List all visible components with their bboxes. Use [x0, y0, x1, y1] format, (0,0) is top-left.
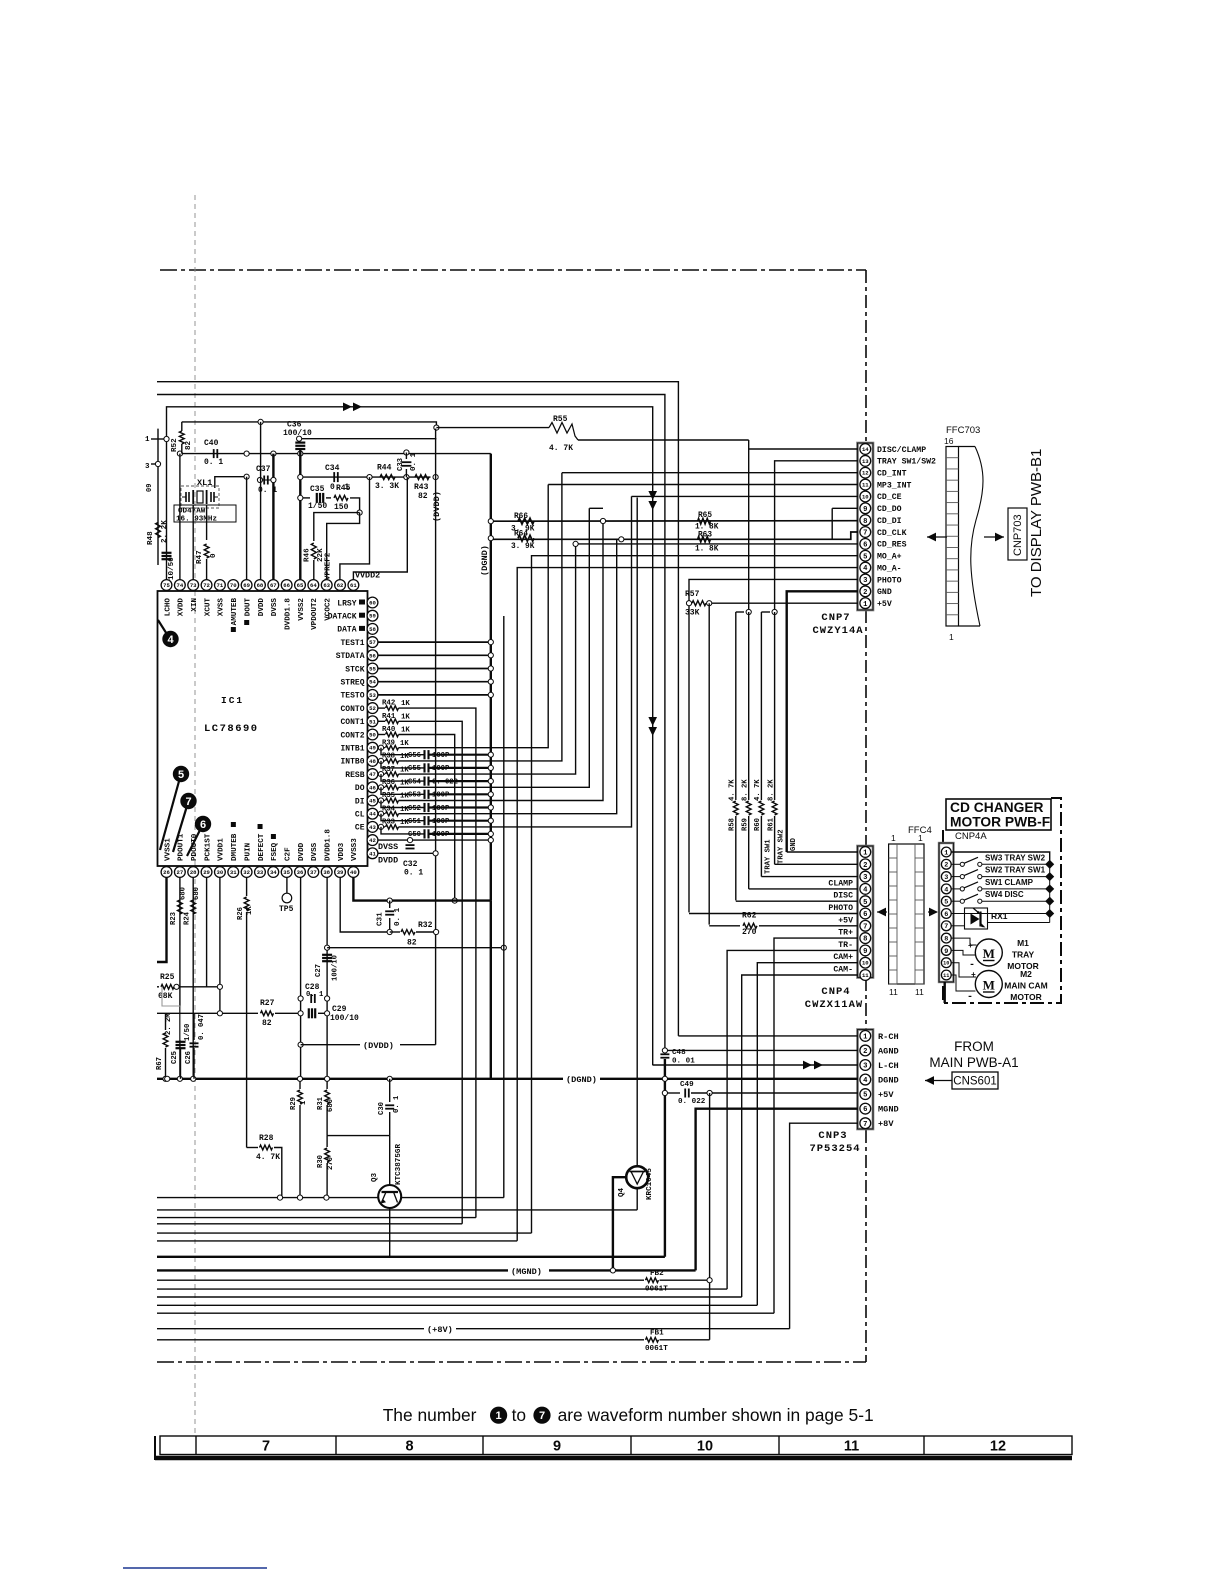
ruler thick base line	[155, 1456, 1072, 1461]
wire fan line 2 Q4	[157, 1209, 637, 1211]
wire C36 to pin65 VVSS2 thick	[299, 449, 301, 580]
connector CNP3 box	[858, 1030, 874, 1130]
svg-text:RESB: RESB	[345, 771, 364, 780]
svg-text:LC78690: LC78690	[204, 723, 259, 735]
capacitor C35 1/50	[316, 493, 318, 503]
wire R45 to VPDOUT2/VCOC2 node	[350, 498, 360, 513]
svg-text:0. 1: 0. 1	[306, 991, 324, 999]
svg-text:10: 10	[862, 960, 869, 967]
svg-text:DO: DO	[355, 784, 365, 793]
svg-text:MO_A-: MO_A-	[877, 564, 902, 573]
resistor R41 1K on CONT1	[378, 720, 385, 722]
svg-text:1: 1	[944, 849, 948, 857]
wire R52 top rail y=421.9	[182, 422, 437, 428]
svg-text:10: 10	[697, 1439, 713, 1455]
svg-text:4: 4	[863, 1077, 868, 1085]
pin 59 DATACK bus square	[359, 613, 365, 618]
wire CNP3 pin5 +5V	[665, 1092, 680, 1094]
svg-text:7: 7	[863, 923, 867, 931]
svg-text:R67: R67	[156, 1057, 164, 1070]
svg-text:CWZY14A: CWZY14A	[812, 625, 863, 637]
wire AGND from DAC	[157, 395, 665, 1050]
arrow to CNP7	[927, 536, 947, 538]
capacitor C34 0.1	[333, 472, 335, 482]
svg-text:0. 1: 0. 1	[394, 907, 402, 926]
wire CNP3 pin1 R-CH	[678, 1035, 858, 1037]
CNP703 box	[1008, 508, 1027, 560]
svg-text:0. 1: 0. 1	[410, 452, 418, 471]
junction MGND Q4	[610, 1268, 615, 1273]
svg-text:FB2: FB2	[650, 1270, 664, 1278]
svg-text:XVSS: XVSS	[218, 598, 226, 617]
svg-text:6: 6	[200, 819, 206, 831]
wire DVDD rail y=477.1	[300, 476, 430, 478]
svg-text:56: 56	[369, 652, 376, 659]
svg-text:DATACK: DATACK	[328, 613, 357, 622]
svg-text:48: 48	[369, 758, 376, 765]
svg-text:L-CH: L-CH	[878, 1061, 899, 1071]
wire fan line 12 CAM+	[157, 1304, 757, 1306]
wire CNP7 pin3 PHOTO	[689, 579, 858, 912]
svg-text:29: 29	[203, 869, 210, 876]
svg-text:1: 1	[863, 850, 868, 858]
resistor R45 150	[326, 497, 331, 499]
resistor R46 22K	[311, 543, 316, 559]
resistor R27 82	[261, 1011, 274, 1016]
wire CNP3 pin2 AGND	[665, 1049, 858, 1051]
svg-text:3: 3	[863, 874, 867, 882]
resistor R57 33K	[692, 601, 706, 606]
wire Q4 base thick	[613, 1177, 626, 1270]
svg-text:C55: C55	[408, 765, 421, 773]
FFC4 ribbon	[889, 844, 924, 984]
wire CNP4 pin8 TR+	[774, 938, 858, 1313]
svg-text:100P: 100P	[432, 818, 450, 826]
svg-text:6: 6	[944, 911, 948, 919]
svg-text:0061T: 0061T	[645, 1345, 668, 1353]
svg-text:MOTOR: MOTOR	[1010, 992, 1041, 1002]
wire pin74 XVDD column	[179, 454, 181, 580]
svg-text:FB1: FB1	[650, 1330, 664, 1338]
svg-text:CL: CL	[355, 811, 365, 820]
svg-text:IC1: IC1	[221, 695, 244, 706]
svg-text:GND: GND	[790, 837, 798, 851]
svg-text:C56: C56	[408, 752, 421, 760]
IC1 bottom pins 26-40	[161, 867, 172, 878]
svg-text:30: 30	[217, 869, 224, 876]
svg-text:0: 0	[210, 553, 218, 558]
junction DI tap	[600, 518, 605, 523]
svg-text:R34: R34	[382, 805, 396, 813]
wire CNP4 pin1 GND	[787, 851, 858, 853]
wire CNP4 pin6 PHOTO	[689, 913, 858, 915]
svg-text:VDD3: VDD3	[338, 842, 346, 861]
svg-text:+5V: +5V	[877, 600, 892, 609]
svg-text:DISC/CLAMP: DISC/CLAMP	[877, 445, 926, 455]
resistor R62 270	[743, 923, 757, 928]
svg-text:+5V: +5V	[878, 1090, 894, 1100]
svg-text:R31: R31	[317, 1096, 325, 1110]
svg-text:VPDOUT2: VPDOUT2	[311, 598, 319, 630]
svg-text:11: 11	[889, 987, 898, 997]
resistor R64 3.9K	[518, 535, 534, 541]
page border dash-dot bottom	[157, 1361, 866, 1363]
svg-text:GND: GND	[877, 588, 892, 597]
wire pin36 DVDD column	[300, 878, 302, 1079]
svg-text:DVDD1.8: DVDD1.8	[325, 829, 333, 861]
wire DVDD label line	[298, 1042, 303, 1047]
wire CNP4A pin7 to RX1	[952, 925, 965, 927]
svg-text:MOTOR PWB-F: MOTOR PWB-F	[950, 815, 1050, 830]
svg-text:9: 9	[863, 506, 867, 514]
svg-text:4. 7K: 4. 7K	[729, 779, 737, 801]
svg-text:CNP4: CNP4	[821, 986, 850, 998]
wire fan line 14 +8V	[157, 1328, 424, 1330]
junction C48 top	[662, 1048, 667, 1053]
resistor R35 1K on pin 45	[378, 800, 385, 802]
svg-text:1: 1	[863, 601, 868, 609]
svg-text:LCHO: LCHO	[164, 598, 172, 617]
svg-text:TRAY SW1/SW2: TRAY SW1/SW2	[877, 457, 936, 467]
waveform badge 7	[173, 801, 189, 852]
wire R-CH from DAC	[157, 382, 678, 1036]
svg-text:CD_DI: CD_DI	[877, 517, 902, 526]
svg-text:5: 5	[863, 553, 867, 561]
wire RX1 to bus	[988, 922, 1050, 924]
pin 60 LRSY bus square	[359, 600, 365, 605]
svg-text:R38: R38	[382, 753, 395, 761]
svg-text:1K: 1K	[400, 766, 409, 774]
wire CNP4 pin9 TR-	[727, 950, 858, 1289]
svg-text:KRC1045: KRC1045	[646, 1168, 654, 1200]
junction pin68 column top	[258, 419, 263, 424]
svg-text:R36: R36	[382, 779, 395, 787]
svg-text:09: 09	[146, 484, 154, 492]
svg-text:1: 1	[891, 833, 896, 843]
wire pin39 VDD3 column	[340, 878, 390, 933]
transistor Q4 KRC1045	[626, 1166, 648, 1188]
svg-text:1K: 1K	[400, 753, 409, 761]
svg-text:R40: R40	[382, 726, 396, 734]
junction C32 top	[407, 838, 412, 843]
svg-text:1: 1	[300, 1100, 308, 1105]
svg-text:1. 8K: 1. 8K	[695, 524, 719, 532]
svg-text:59: 59	[369, 613, 376, 620]
svg-text:DISC: DISC	[833, 892, 853, 901]
svg-text:-: -	[969, 960, 975, 971]
capacitor C36 100/10	[297, 436, 302, 441]
svg-text:DVDD: DVDD	[258, 598, 266, 617]
wire R25 line gray drop	[162, 987, 181, 1040]
svg-text:KTC3875GR: KTC3875GR	[395, 1144, 403, 1185]
svg-text:CONT1: CONT1	[340, 718, 364, 727]
svg-text:31: 31	[230, 869, 237, 876]
wire CNP3 pin7 +8V	[790, 1123, 858, 1329]
svg-text:1: 1	[496, 1410, 502, 1422]
svg-text:DVSS: DVSS	[378, 842, 398, 852]
svg-text:4: 4	[944, 886, 948, 894]
svg-text:R57: R57	[685, 590, 700, 599]
resistor R61 8.2K	[774, 612, 776, 800]
junction DVDD vertical top	[434, 425, 439, 430]
switch common bus	[1049, 864, 1051, 922]
svg-text:C40: C40	[204, 439, 219, 448]
svg-text:-: -	[967, 992, 973, 1003]
grid dashed vertical line	[194, 195, 196, 1436]
svg-text:34: 34	[270, 869, 277, 876]
svg-text:45: 45	[369, 798, 376, 805]
wire R60 pullup bend	[761, 611, 770, 613]
svg-text:TR-: TR-	[838, 941, 853, 950]
wire CNP4A pin1	[952, 852, 1050, 864]
svg-text:68: 68	[257, 582, 264, 589]
svg-text:28: 28	[190, 869, 197, 876]
svg-text:XIN: XIN	[191, 598, 199, 612]
svg-text:14: 14	[862, 446, 869, 453]
wire pin68 DVDD column	[260, 422, 262, 580]
junction R57 left on PHOTO	[686, 601, 691, 606]
svg-text:(DGND): (DGND)	[566, 1075, 597, 1085]
waveform badge 4	[158, 620, 170, 639]
svg-text:65: 65	[297, 582, 304, 589]
svg-text:0. 1: 0. 1	[404, 869, 423, 878]
svg-text:SW3 TRAY SW2: SW3 TRAY SW2	[985, 853, 1046, 862]
connector CNP4A box	[939, 843, 954, 982]
wire pin40 VVSS3 thick to DGND vertical	[353, 878, 490, 901]
wire CD_DO riser	[831, 508, 833, 539]
svg-text:STREQ: STREQ	[340, 679, 364, 688]
wire fan line 10 TR-	[157, 1288, 727, 1290]
svg-text:C30: C30	[378, 1102, 386, 1115]
resistor R60 4.7K	[760, 612, 762, 800]
svg-text:PUIN: PUIN	[244, 842, 252, 861]
svg-text:CWZX11AW: CWZX11AW	[805, 999, 863, 1011]
svg-text:1: 1	[918, 833, 923, 843]
svg-text:CNP4A: CNP4A	[955, 831, 987, 842]
svg-text:TR+: TR+	[838, 929, 853, 938]
wire VVDD2 riser pin61	[353, 477, 407, 579]
svg-text:PDOUT1: PDOUT1	[178, 833, 186, 861]
svg-text:R66: R66	[514, 513, 528, 521]
wire Q3 collector top	[389, 1136, 391, 1185]
wire C30 to R31/R30 node	[327, 1135, 390, 1137]
svg-text:C36: C36	[287, 421, 302, 430]
svg-text:2: 2	[944, 862, 948, 870]
wire CNP4 pin3 TRAY SW1	[761, 876, 858, 878]
svg-text:MP3_INT: MP3_INT	[877, 481, 911, 490]
svg-text:SW2 TRAY SW1: SW2 TRAY SW1	[985, 866, 1046, 875]
test point TP5	[286, 878, 288, 894]
svg-text:2: 2	[863, 589, 867, 597]
svg-text:(DVDD): (DVDD)	[363, 1041, 394, 1051]
junction C31 bottom	[387, 929, 392, 934]
svg-text:R44: R44	[377, 464, 392, 473]
svg-text:C29: C29	[332, 1005, 347, 1014]
page border dash-dot right vertical	[865, 270, 867, 443]
wire ground rail y=453.6	[180, 453, 491, 455]
svg-text:3: 3	[944, 874, 948, 882]
capacitor C32 0.1	[406, 844, 415, 846]
junction ground rail pin67	[271, 451, 276, 456]
junction R32 to DVDD vertical	[434, 929, 439, 934]
svg-text:VPREF2: VPREF2	[325, 552, 333, 580]
svg-text:100/10: 100/10	[332, 955, 340, 981]
svg-text:12: 12	[862, 470, 869, 477]
crystal XL1 element	[197, 491, 203, 503]
svg-text:36: 36	[297, 869, 304, 876]
switch SW2	[952, 876, 961, 878]
wire fan line 7 thick AGND return	[157, 1256, 665, 1258]
svg-text:MAIN PWB-A1: MAIN PWB-A1	[929, 1055, 1018, 1070]
svg-text:to: to	[512, 1405, 527, 1425]
crystal load capacitors	[185, 492, 187, 502]
wire VPREF2 riser pin62	[340, 477, 370, 579]
capacitor C54 0. 022	[381, 774, 424, 781]
wire CNP4 pin10 CAM+	[757, 963, 858, 1306]
svg-text:R58: R58	[729, 818, 737, 831]
svg-text:100/10: 100/10	[283, 429, 312, 438]
svg-text:C49: C49	[680, 1081, 694, 1089]
svg-text:32: 32	[243, 869, 250, 876]
svg-text:7P53254: 7P53254	[809, 1143, 860, 1155]
svg-text:9: 9	[944, 948, 948, 956]
svg-text:1/50: 1/50	[308, 502, 327, 511]
svg-text:CNS601: CNS601	[953, 1076, 996, 1088]
wire CONT2 riser	[399, 735, 455, 901]
CNP4A box bottom stub	[944, 982, 946, 1003]
resistor R52 82	[181, 422, 183, 431]
svg-text:R43: R43	[414, 483, 429, 492]
resistor R34 1K on pin 44	[378, 813, 385, 815]
wire pin38 DVDD1.8 column	[326, 878, 328, 1079]
junction ground rail DOUT column	[244, 451, 249, 456]
capacitor C48 0.01	[660, 1053, 669, 1055]
motor M2	[975, 971, 1002, 998]
resistor R29 1	[299, 1079, 301, 1089]
svg-text:64: 64	[310, 582, 317, 589]
pin 58 DATA bus square	[359, 626, 365, 631]
svg-text:44: 44	[369, 811, 376, 818]
svg-text:CD CHANGER: CD CHANGER	[950, 800, 1044, 815]
svg-text:C52: C52	[408, 805, 421, 813]
junction C31 top	[387, 898, 392, 903]
svg-text:MGND: MGND	[878, 1105, 899, 1115]
svg-text:R27: R27	[260, 999, 275, 1008]
svg-text:TRAY SW1: TRAY SW1	[765, 839, 773, 874]
resistor R42 1K on CONTO	[378, 707, 385, 709]
resistor R33 1K on pin 43	[378, 826, 385, 828]
wire CNP7 pin5 MO_A+	[532, 556, 859, 1233]
svg-text:R48: R48	[147, 531, 155, 545]
svg-text:4. 7K: 4. 7K	[256, 1153, 280, 1162]
svg-text:DVDD: DVDD	[378, 856, 398, 866]
svg-text:60: 60	[369, 600, 376, 607]
connector CNP4 box	[858, 846, 874, 978]
wire C36 top link	[299, 438, 436, 440]
svg-text:0. 022: 0. 022	[432, 778, 458, 786]
svg-text:C33: C33	[397, 458, 405, 471]
svg-text:82: 82	[407, 939, 417, 948]
resistor R43 82	[415, 475, 429, 480]
wire pin 44 riser	[399, 539, 617, 813]
wire pin 43 riser	[399, 496, 632, 827]
wire CD_CLK divider line	[491, 532, 858, 539]
resistor R48 2.2K	[156, 523, 161, 538]
svg-text:TP5: TP5	[279, 905, 294, 914]
svg-text:AGND: AGND	[878, 1046, 899, 1056]
junction CL tap	[619, 537, 624, 542]
junction R57 right +5V riser	[707, 601, 712, 606]
motor M1	[975, 939, 1002, 966]
wire pin28 PDOUT0 column	[192, 878, 194, 1079]
crystal text box	[174, 505, 236, 522]
svg-text:C54: C54	[408, 778, 422, 786]
left edge column x158	[157, 429, 159, 565]
svg-text:CE: CE	[355, 824, 365, 833]
svg-text:8. 2K: 8. 2K	[768, 779, 776, 801]
svg-text:74: 74	[176, 582, 183, 589]
arrow CNP4 to FFC4	[877, 911, 887, 913]
svg-text:9: 9	[553, 1439, 561, 1455]
wire pin42 DVSS to DGND	[378, 839, 491, 841]
svg-text:100P: 100P	[432, 752, 450, 760]
svg-text:1: 1	[863, 1033, 868, 1041]
crystal XL1 box	[181, 486, 219, 508]
svg-text:C37: C37	[256, 465, 271, 474]
junction DVDD vertical	[433, 475, 438, 480]
junction ground rail C33	[404, 450, 409, 455]
resistor R44 3.3K	[380, 475, 395, 480]
svg-text:1K: 1K	[400, 740, 409, 748]
svg-text:53: 53	[369, 692, 376, 699]
svg-text:51: 51	[369, 718, 376, 725]
svg-text:1K: 1K	[401, 700, 410, 708]
svg-text:8: 8	[863, 936, 867, 944]
svg-text:8: 8	[944, 936, 948, 944]
svg-text:3: 3	[863, 1063, 867, 1071]
svg-text:M2: M2	[1020, 969, 1032, 979]
capacitor C55 100P	[381, 761, 424, 768]
wire C27 line to nest	[327, 947, 504, 949]
wire CNP4 pin2 TRAY SW2	[775, 863, 858, 865]
svg-text:73: 73	[190, 582, 197, 589]
CD CHANGER MOTOR PWB-F title box	[946, 799, 1051, 830]
wire R58 pullup bend	[736, 611, 744, 613]
svg-text:OD47AW: OD47AW	[178, 508, 206, 516]
svg-text:Q4: Q4	[618, 1187, 626, 1197]
wire CNP4 pin7 +5V via R62	[709, 925, 740, 927]
wire fan line 13 TR+	[157, 1312, 774, 1314]
switch SW3	[952, 863, 961, 865]
capacitor C25 1/50	[176, 1041, 186, 1043]
svg-text:4: 4	[863, 886, 868, 894]
svg-text:VVSS1: VVSS1	[164, 838, 172, 861]
svg-text:DVDD: DVDD	[298, 842, 306, 861]
svg-text:100P: 100P	[432, 792, 450, 800]
svg-text:R39: R39	[382, 739, 395, 747]
svg-text:72: 72	[203, 582, 210, 589]
svg-text:MO_A+: MO_A+	[877, 553, 902, 562]
svg-text:1K: 1K	[401, 713, 410, 721]
svg-text:CONT2: CONT2	[340, 731, 364, 740]
svg-text:55: 55	[369, 666, 376, 673]
svg-text:11: 11	[844, 1439, 859, 1455]
capacitor C33 0.1	[405, 453, 407, 460]
svg-text:CD_RES: CD_RES	[877, 541, 907, 550]
svg-text:+5V: +5V	[838, 916, 853, 925]
svg-text:67: 67	[270, 582, 277, 589]
wire node to pin63 VCOC2	[327, 513, 360, 580]
